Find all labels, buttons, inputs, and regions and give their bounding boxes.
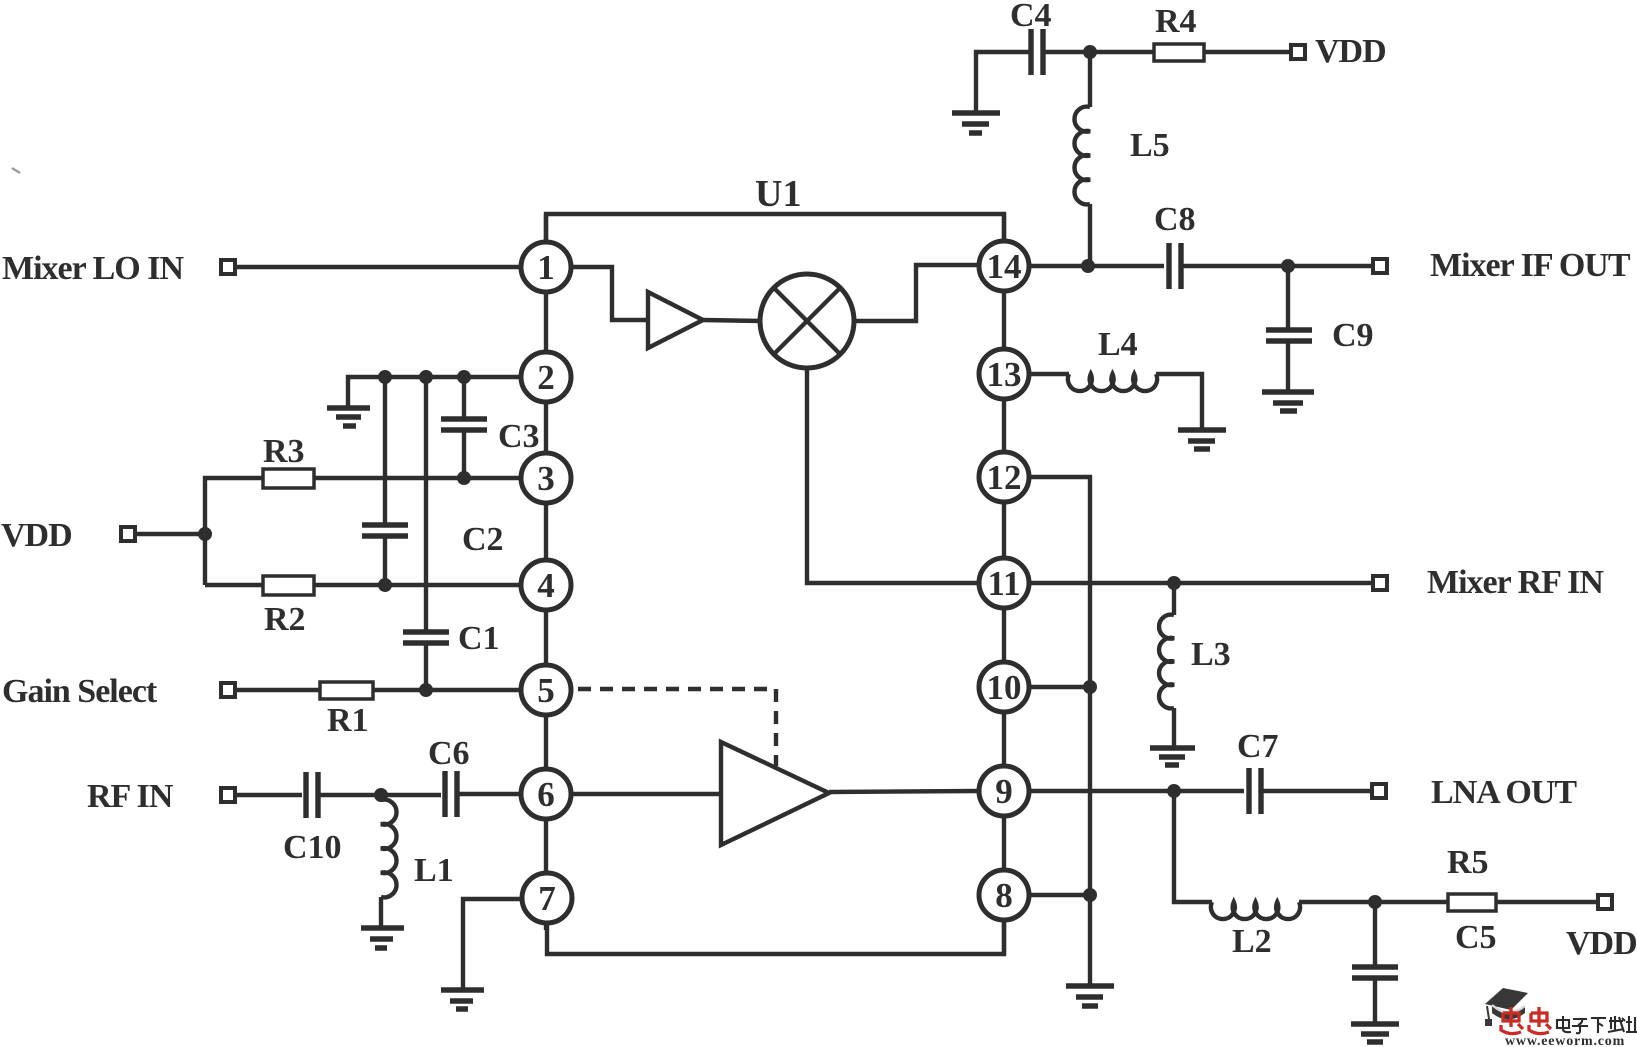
svg-text:Gain Select: Gain Select [2,673,158,710]
pin 5 [521,665,571,715]
svg-text:R4: R4 [1155,3,1197,40]
capacitor C10 [306,772,318,818]
capacitor C8 [1169,243,1181,289]
ground (C9) [1262,392,1314,411]
wire R2 to VDD branch [205,583,263,587]
terminal Mixer LO IN [221,260,235,274]
wire pin 13 to L4 [1031,372,1069,376]
op-amp LNA amplifier inside U1 [721,742,829,845]
svg-text:L4: L4 [1098,326,1138,363]
svg-text:L3: L3 [1191,636,1231,673]
wire LNA output to pin 9 [829,791,977,792]
wire RF IN to C10 [237,793,302,797]
wire right pin column [1002,214,1006,954]
terminal Mixer RF IN [1373,576,1387,590]
inductor L1 [381,800,397,926]
capacitor C4 [976,29,1043,111]
svg-text:C6: C6 [428,735,470,772]
capacitor C6 [445,771,457,817]
node VDD junction [198,527,212,541]
wire pin 4 row [314,583,519,587]
wire R4 to VDD terminal [1204,50,1290,54]
svg-text:L1: L1 [414,852,454,889]
wire Mixer LO IN to pin 1 [237,265,519,269]
pin 10 [979,662,1029,712]
svg-text:C7: C7 [1237,728,1279,765]
inductor L2 [1174,791,1375,919]
svg-text:R5: R5 [1447,844,1489,881]
svg-text:U1: U1 [755,173,801,215]
svg-text:C1: C1 [458,620,500,657]
pin 12 [979,452,1029,502]
wire pin 12 to bus [1031,477,1090,984]
svg-text:11: 11 [987,564,1020,603]
pin 7 [522,873,572,923]
svg-text:L5: L5 [1130,127,1170,164]
terminal VDD bottom right [1598,895,1612,909]
svg-text:12: 12 [987,458,1022,497]
op-amp U1 (IC outline top edge) [546,214,1004,240]
svg-text:L2: L2 [1232,923,1272,960]
inductor L3 [1159,583,1174,747]
wire pin 14 to C8 [1031,264,1164,268]
inductor L5 [1074,52,1090,266]
svg-text:Mixer RF IN: Mixer RF IN [1427,564,1604,601]
wire dashed gain select feedback from pin 5 to LNA [578,689,776,766]
ground (L1) [361,928,404,948]
svg-text:9: 9 [995,772,1013,811]
node pin10 bus junction [1083,680,1097,694]
svg-text:Mixer IF OUT: Mixer IF OUT [1430,247,1631,284]
wire R5 to VDD terminal [1496,900,1597,904]
terminal LNA OUT [1372,784,1386,798]
node C3 top junction [457,370,471,384]
svg-text:C2: C2 [462,521,504,558]
U1 bottom edge wire [547,921,1004,954]
wire pin6 to LNA input [573,792,721,796]
pin 1 [521,242,571,292]
terminal VDD top [1291,45,1305,59]
node L3 junction [1167,576,1181,590]
wire R3 to VDD branch [205,478,263,585]
pin 2 [521,352,571,402]
resistor R1 [320,682,373,699]
node pin8 bus junction [1083,888,1097,902]
wire C10 to C6 [318,793,441,797]
terminal Mixer IF OUT [1373,259,1387,273]
wire mixer RF input from pin 11 [807,368,977,583]
wire pin 7 to ground [463,899,521,988]
pin 11 [979,558,1029,608]
node C2 top junction [378,370,392,384]
ground (pin 2 bus) [327,408,370,426]
mixer cell (circle with X) inside U1 [760,274,854,368]
svg-text:www.eeworm.com: www.eeworm.com [1505,1034,1625,1047]
capacitor C5 [1352,902,1398,1022]
pin 8 [979,870,1029,920]
scan speck (noise) [12,168,20,173]
svg-text:8: 8 [995,876,1013,915]
wire pin 8 to bus [1031,893,1090,897]
wire junction to R5 [1375,900,1448,904]
resistor R4 [1154,44,1204,61]
svg-text:C10: C10 [283,829,342,866]
svg-text:C5: C5 [1455,919,1497,956]
ground (C4) [952,113,1000,133]
wire pin 2 ground bus [348,377,519,407]
wire LO buffer to mixer [703,320,762,321]
wire VDD terminal to junction [137,532,205,536]
svg-text:6: 6 [537,775,555,814]
terminal RF IN [221,788,235,802]
pin 3 [521,453,571,503]
capacitor C7 [1249,768,1261,814]
svg-text:R2: R2 [264,601,306,638]
wire C7 to LNA OUT terminal [1261,789,1371,793]
terminal Gain Select [221,683,235,697]
svg-text:4: 4 [537,566,555,605]
svg-text:Mixer LO IN: Mixer LO IN [2,250,184,287]
wire pin1 to LO buffer input [573,267,648,320]
wire pin 11 to Mixer RF IN terminal [1031,581,1372,585]
capacitor C3 [441,377,487,478]
svg-text:C9: C9 [1332,317,1374,354]
svg-text:C3: C3 [498,418,540,455]
watermark chinese characters 虫虫 (red) [1501,1007,1551,1034]
svg-text:3: 3 [537,459,555,498]
wire Gain Select to R1 [237,688,320,692]
wire pin 9 to C7 [1031,789,1244,793]
watermark chinese text 电子下载站 (black) [1557,1016,1637,1033]
wire R1 to pin 5 [373,688,519,692]
wire left pin column [544,214,548,930]
watermark eeworm logo graduation cap [1485,988,1528,1026]
node L5 top junction [1083,45,1097,59]
svg-text:10: 10 [987,668,1022,707]
ground (C5) [1351,1024,1399,1042]
pin 6 [521,769,571,819]
svg-text:14: 14 [987,247,1022,286]
node L2 junction [1167,784,1181,798]
node C1 bottom junction on pin 5 wire [419,683,433,697]
op-amp LO buffer amplifier inside U1 [648,292,703,348]
svg-text:R1: R1 [327,702,369,739]
node C2 bottom junction on pin 4 wire [378,578,392,592]
capacitor C1 [403,377,449,690]
svg-text:1: 1 [537,248,555,287]
pin 9 [979,766,1029,816]
wire pin 3 row [314,476,519,480]
node L5 bottom junction [1081,259,1095,273]
node C3 bottom junction on pin 3 wire [457,471,471,485]
ground (L4) [1178,430,1226,449]
ground (L3) [1150,748,1195,765]
ground (pin 12/10/8 bus) [1066,986,1114,1006]
svg-text:VDD: VDD [1566,925,1637,962]
wire C8 to Mixer IF OUT terminal [1181,264,1372,268]
pin 13 [979,349,1029,399]
svg-text:C8: C8 [1154,201,1196,238]
node C1 top junction [419,370,433,384]
resistor R2 [263,576,314,595]
pin 4 [521,560,571,610]
node C5 junction [1368,895,1382,909]
node L1 junction [374,788,388,802]
svg-text:5: 5 [537,671,555,710]
ground (pin 7) [441,990,484,1009]
capacitor C9 [1266,266,1312,390]
node C9 junction [1281,259,1295,273]
svg-text:13: 13 [987,355,1022,394]
svg-text:RF IN: RF IN [87,778,174,815]
svg-text:VDD: VDD [1315,33,1386,70]
resistor R5 [1448,894,1496,911]
capacitor C2 [362,377,408,585]
svg-text:VDD: VDD [1,517,72,554]
svg-text:LNA OUT: LNA OUT [1431,774,1577,811]
svg-text:2: 2 [537,358,555,397]
svg-text:7: 7 [538,879,556,918]
svg-text:R3: R3 [263,433,305,470]
terminal VDD left [121,527,135,541]
resistor R3 [263,469,314,488]
svg-text:C4: C4 [1010,0,1052,34]
wire C4 to R4 [1043,50,1154,54]
wire pin 10 to bus [1031,685,1090,689]
wire C6 to pin 6 [457,792,519,796]
wire mixer output to pin 14 [854,265,977,321]
inductor L4 [1068,374,1202,428]
pin 14 [979,241,1029,291]
